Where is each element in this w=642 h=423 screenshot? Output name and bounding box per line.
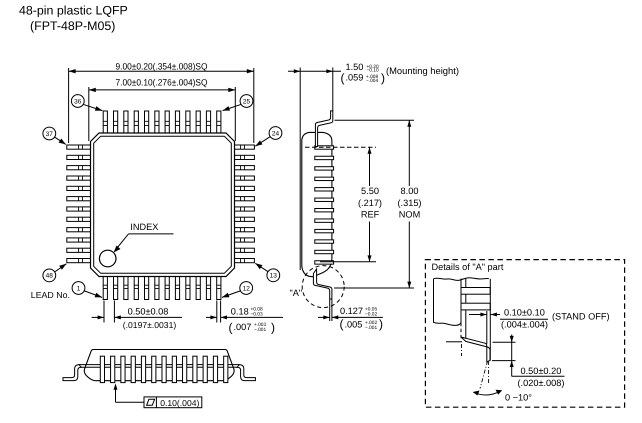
svg-text:LEAD No.: LEAD No. xyxy=(31,290,70,300)
svg-text:.005: .005 xyxy=(345,320,363,330)
index mark circle xyxy=(99,250,116,267)
svg-text:0 ~10°: 0 ~10° xyxy=(505,393,532,403)
dimension 0.10 stand off xyxy=(469,308,610,345)
svg-text:(FPT-48P-M05): (FPT-48P-M05) xyxy=(30,19,115,33)
top pins 25-36 xyxy=(103,111,221,133)
svg-text:(.315): (.315) xyxy=(397,198,421,208)
side view seating plane / body left extension line xyxy=(299,68,301,271)
detail lead bend and foot xyxy=(461,337,490,362)
detail foot angle lines xyxy=(480,361,489,389)
svg-text:−.004: −.004 xyxy=(366,78,378,84)
bottom view lead band (side rows edge-on) xyxy=(79,365,240,368)
svg-text:37: 37 xyxy=(46,131,54,138)
svg-text:(STAND OFF): (STAND OFF) xyxy=(552,312,610,322)
right pins 13-24 xyxy=(235,145,255,263)
dimension 0.50 pitch xyxy=(92,301,182,330)
pin 1 callout xyxy=(72,282,102,298)
svg-text:7.00±0.10(.276±.004)SQ: 7.00±0.10(.276±.004)SQ xyxy=(116,78,208,88)
svg-text:(.0197±.0031): (.0197±.0031) xyxy=(123,320,177,330)
svg-text:0.127: 0.127 xyxy=(340,306,363,316)
svg-text:0.10±0.10: 0.10±0.10 xyxy=(504,308,545,318)
pin 13 callout xyxy=(255,263,279,281)
bottom pins 1-12 xyxy=(103,277,221,300)
pin 12 callout xyxy=(222,282,253,298)
svg-text:36: 36 xyxy=(74,98,82,105)
svg-text:+0.08: +0.08 xyxy=(251,306,263,312)
svg-text:48: 48 xyxy=(46,273,54,280)
svg-text:24: 24 xyxy=(272,130,280,137)
pin 48 callout xyxy=(43,264,66,282)
svg-text:−0.02: −0.02 xyxy=(365,312,377,318)
svg-text:): ) xyxy=(271,321,275,335)
svg-text:12: 12 xyxy=(243,285,251,292)
flatness feature control frame xyxy=(144,397,202,408)
svg-text:0.10(.004): 0.10(.004) xyxy=(160,398,199,408)
dimension 9.00 SQ xyxy=(69,62,254,143)
svg-text:5.50: 5.50 xyxy=(361,186,379,196)
side view bottom lead (gull wing, detail A) xyxy=(313,269,332,299)
detail seating plane line xyxy=(489,279,491,361)
pin 36 callout xyxy=(71,95,102,111)
dimension 1.50 mounting height xyxy=(288,62,459,111)
pin 25 callout xyxy=(223,95,253,111)
detail bend centerline xyxy=(461,344,463,356)
svg-text:9.00±0.20(.354±.008)SQ: 9.00±0.20(.354±.008)SQ xyxy=(116,62,208,72)
svg-text:(.217): (.217) xyxy=(358,198,382,208)
angle 0-10 degrees xyxy=(473,390,532,403)
side view lead bars (end-on leads) xyxy=(315,146,334,264)
dimension 8.00 NOM xyxy=(334,120,422,288)
svg-text:0.50±0.08: 0.50±0.08 xyxy=(128,306,169,316)
detail lead vertical lines xyxy=(461,279,466,342)
detail A dashed circle xyxy=(302,266,344,308)
svg-text:Details of "A" part: Details of "A" part xyxy=(432,262,504,272)
svg-text:(: ( xyxy=(340,317,344,331)
svg-text:8.00: 8.00 xyxy=(401,186,419,196)
dimension 5.50 REF xyxy=(305,147,382,261)
dimension 0.127 lead thickness xyxy=(318,300,383,332)
svg-text:0.50±0.20: 0.50±0.20 xyxy=(521,366,562,376)
svg-text:.059: .059 xyxy=(346,72,364,82)
svg-text:(: ( xyxy=(341,71,345,85)
svg-text:0.18: 0.18 xyxy=(231,306,249,316)
pin 37 callout xyxy=(43,127,66,144)
svg-text:REF: REF xyxy=(361,210,380,220)
svg-text:25: 25 xyxy=(243,98,251,105)
svg-text:): ) xyxy=(381,71,385,85)
pin 24 callout xyxy=(255,127,282,147)
svg-text:1: 1 xyxy=(77,285,81,292)
bottom view vertical lead bars xyxy=(100,356,228,382)
svg-text:(.004±.004): (.004±.004) xyxy=(501,320,548,330)
flatness callout leader xyxy=(114,383,145,402)
svg-text:(Mounting height): (Mounting height) xyxy=(386,65,459,76)
detail standoff plane tick xyxy=(446,341,462,343)
dimension 7.00 SQ xyxy=(89,78,236,141)
bottom view left gull-wing lead xyxy=(63,365,81,381)
svg-text:13: 13 xyxy=(270,273,278,280)
svg-text:−0.10: −0.10 xyxy=(367,67,379,73)
svg-text:INDEX: INDEX xyxy=(130,222,158,232)
dimension 0.50 foot length xyxy=(492,335,565,388)
svg-text:−0.03: −0.03 xyxy=(251,312,263,318)
INDEX label and leader xyxy=(114,222,174,253)
svg-text:−.001: −.001 xyxy=(254,327,266,333)
detail body outline (break lines) xyxy=(434,278,489,326)
detail lead bars xyxy=(461,288,490,310)
svg-text:(.020±.008): (.020±.008) xyxy=(518,378,565,388)
details box dashed border xyxy=(425,260,624,408)
bottom view right gull-wing lead xyxy=(237,365,255,381)
svg-text:−.001: −.001 xyxy=(365,325,377,331)
svg-text:.007: .007 xyxy=(234,322,252,332)
svg-text:(: ( xyxy=(229,321,233,335)
svg-text:"A": "A" xyxy=(290,288,303,298)
svg-text:1.50: 1.50 xyxy=(346,62,364,72)
svg-text:): ) xyxy=(379,317,383,331)
svg-text:48-pin plastic LQFP: 48-pin plastic LQFP xyxy=(19,4,128,18)
svg-text:NOM: NOM xyxy=(399,210,420,220)
side view body outline xyxy=(302,132,332,276)
side view top lead (gull wing) xyxy=(315,111,332,147)
package body outline (top view) xyxy=(91,133,235,277)
dimension 0.18 lead width xyxy=(206,301,283,335)
left pins 37-48 xyxy=(67,145,91,263)
bottom view body outline xyxy=(84,350,234,381)
